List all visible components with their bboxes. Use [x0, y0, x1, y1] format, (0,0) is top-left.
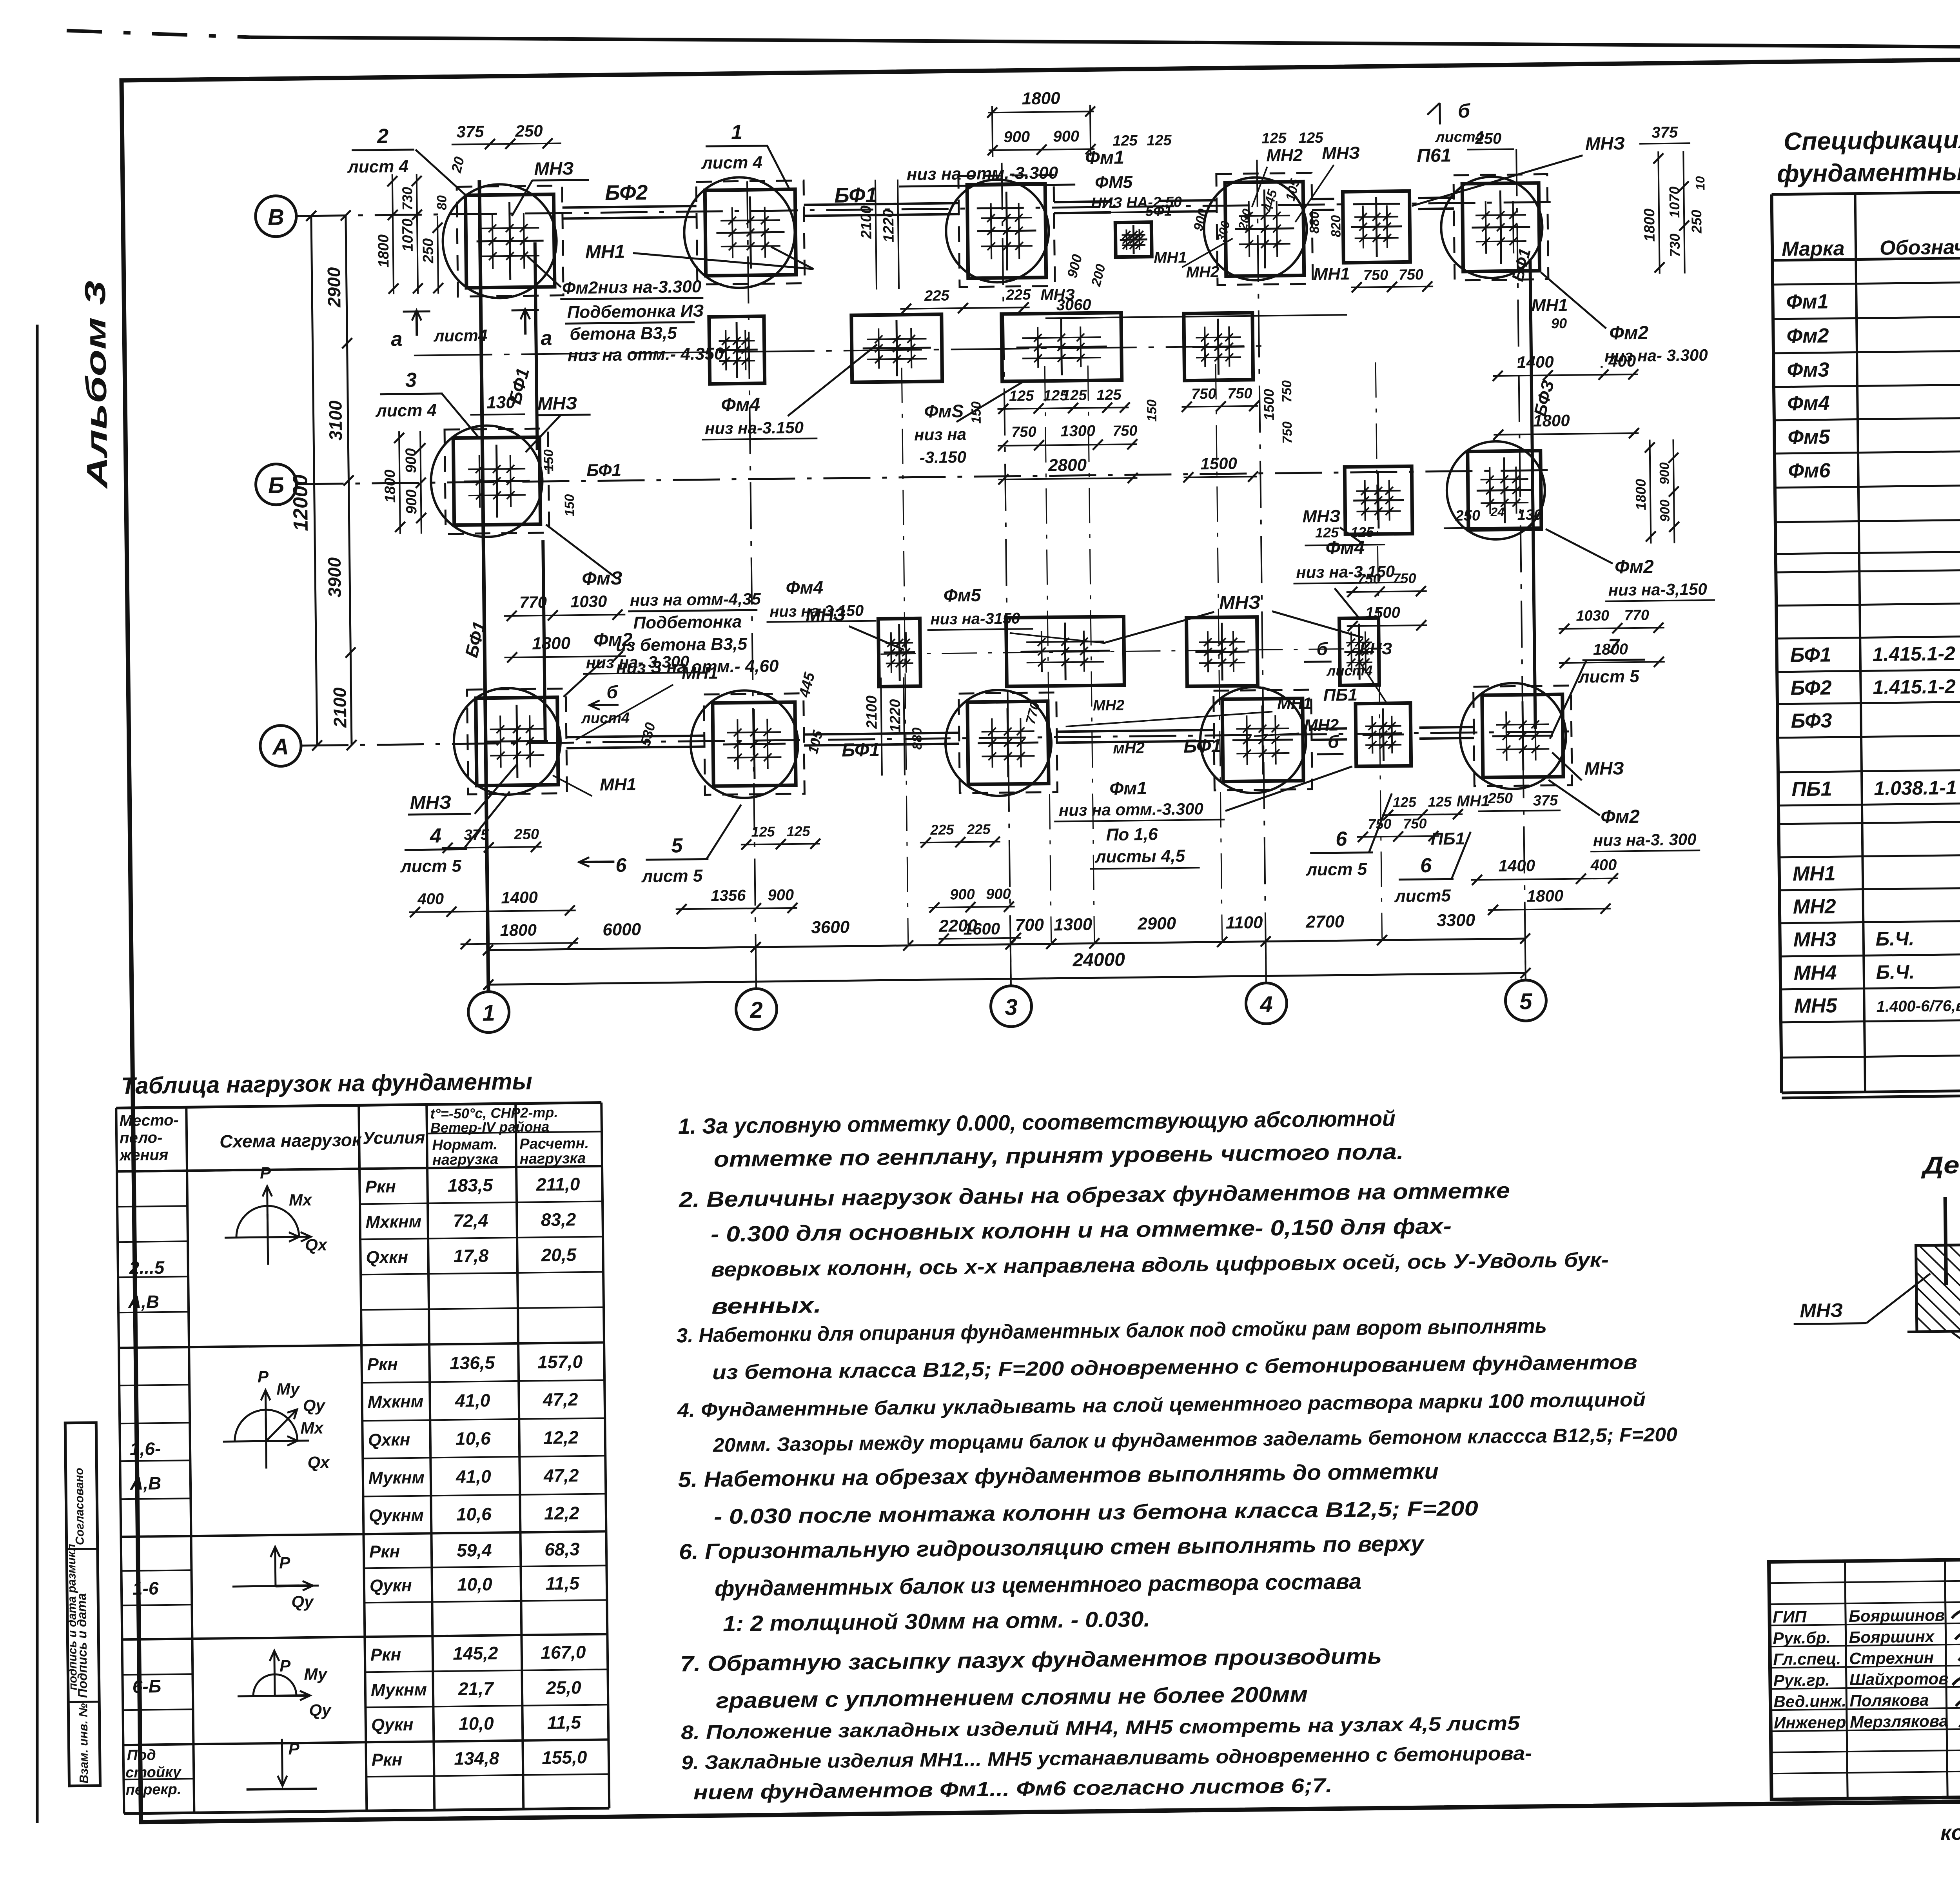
- svg-text:750: 750: [1363, 267, 1388, 284]
- svg-text:Фм3: Фм3: [1787, 358, 1829, 381]
- svg-text:Фм4: Фм4: [721, 394, 760, 416]
- svg-text:125: 125: [1298, 130, 1324, 147]
- svg-text:б: б: [606, 682, 619, 702]
- svg-text:лист 5: лист 5: [641, 866, 703, 886]
- svg-text:47,2: 47,2: [543, 1465, 579, 1486]
- svg-text:Qукн: Qукн: [371, 1715, 414, 1735]
- svg-text:1800: 1800: [1633, 479, 1649, 510]
- svg-text:1356: 1356: [711, 887, 746, 904]
- svg-text:БФ1: БФ1: [1790, 643, 1831, 666]
- svg-text:БФ1: БФ1: [1183, 736, 1222, 757]
- svg-text:лист4: лист4: [433, 326, 487, 345]
- svg-text:низ на- 3.300: низ на- 3.300: [1604, 346, 1708, 365]
- svg-text:2: 2: [750, 997, 763, 1023]
- svg-text:стойку: стойку: [125, 1764, 182, 1781]
- svg-text:183,5: 183,5: [448, 1175, 494, 1196]
- svg-text:Р: Р: [279, 1553, 291, 1572]
- svg-text:МН1: МН1: [682, 663, 718, 683]
- svg-text:Qукн: Qукн: [370, 1576, 412, 1596]
- svg-text:750: 750: [1112, 423, 1138, 439]
- svg-text:125: 125: [1112, 133, 1138, 149]
- foundation А-2: [704, 693, 805, 795]
- svg-text:125: 125: [1393, 794, 1417, 810]
- svg-text:12,2: 12,2: [544, 1503, 580, 1523]
- svg-text:МН4: МН4: [1793, 961, 1837, 984]
- svg-text:90: 90: [1551, 315, 1567, 331]
- svg-text:б: б: [1328, 731, 1340, 752]
- svg-text:1400: 1400: [501, 888, 538, 907]
- svg-text:Ркн: Ркн: [372, 1750, 403, 1770]
- svg-text:250: 250: [1688, 210, 1705, 234]
- axis circle 2: [736, 988, 777, 1029]
- svg-text:1.415.1-2 вып.1: 1.415.1-2 вып.1: [1872, 642, 1960, 665]
- svg-text:6: 6: [1336, 828, 1348, 850]
- foundation В-3 Фм1: [958, 175, 1055, 287]
- svg-text:-3.150: -3.150: [920, 448, 967, 467]
- svg-text:Согласовано: Согласовано: [73, 1468, 87, 1545]
- svg-text:Мхкнм: Мхкнм: [365, 1212, 421, 1232]
- svg-text:6: 6: [615, 854, 627, 876]
- svg-text:125: 125: [1096, 387, 1122, 404]
- svg-text:2900: 2900: [323, 267, 344, 308]
- svg-text:низ на отм.- 4.350: низ на отм.- 4.350: [568, 344, 724, 365]
- svg-text:Фм4: Фм4: [786, 577, 823, 598]
- svg-text:Мхкнм: Мхкнм: [367, 1392, 423, 1412]
- svg-text:1-6: 1-6: [132, 1578, 159, 1599]
- svg-text:Qхкн: Qхкн: [366, 1247, 408, 1267]
- svg-text:1.415.1-2 вып.1: 1.415.1-2 вып.1: [1873, 675, 1960, 698]
- svg-text:3: 3: [405, 369, 417, 392]
- svg-text:Qу: Qу: [309, 1701, 332, 1720]
- svg-text:750: 750: [1403, 815, 1427, 832]
- svg-text:1: 1: [731, 121, 743, 143]
- axis column 4 line: [1257, 160, 1266, 983]
- svg-text:1500: 1500: [1365, 604, 1400, 622]
- svg-text:Б.Ч.: Б.Ч.: [1876, 961, 1915, 983]
- svg-text:900: 900: [403, 448, 420, 473]
- svg-text:225: 225: [924, 287, 950, 304]
- svg-text:Ркн: Ркн: [370, 1645, 401, 1665]
- svg-text:130: 130: [1517, 507, 1542, 524]
- svg-text:МНЗ: МНЗ: [534, 158, 574, 179]
- svg-text:Р: Р: [288, 1739, 300, 1758]
- svg-text:1100: 1100: [1226, 913, 1263, 933]
- svg-text:68,3: 68,3: [544, 1539, 580, 1559]
- beam double lines row В: [563, 206, 697, 208]
- foundation Б МНЗ square: [1345, 466, 1412, 534]
- svg-text:1030: 1030: [1576, 608, 1609, 624]
- svg-text:Шайхротов: Шайхротов: [1849, 1669, 1949, 1689]
- svg-text:59,4: 59,4: [457, 1540, 492, 1561]
- svg-text:1800: 1800: [1526, 886, 1563, 905]
- svg-text:375: 375: [456, 122, 484, 141]
- svg-text:нагрузка: нагрузка: [432, 1151, 499, 1168]
- left margin stamp boxes: [65, 1423, 100, 1786]
- svg-text:лист 4: лист 4: [375, 401, 437, 421]
- svg-text:лист5: лист5: [1394, 886, 1451, 906]
- svg-text:лист 4: лист 4: [347, 157, 408, 177]
- foundation А-3 Фм1: [959, 692, 1058, 793]
- foundation Б-5 Фм2: [1468, 451, 1541, 530]
- svg-text:225: 225: [1005, 287, 1031, 303]
- svg-text:Фм2: Фм2: [1601, 806, 1640, 828]
- svg-text:1030: 1030: [570, 592, 607, 611]
- bottom dimension chain segments: [488, 938, 1525, 950]
- axis column 3 line: [1002, 163, 1011, 986]
- svg-text:900: 900: [768, 886, 794, 904]
- svg-text:Мукнм: Мукнм: [368, 1468, 425, 1488]
- svg-text:А,В: А,В: [128, 1291, 160, 1312]
- svg-text:Qу: Qу: [303, 1396, 326, 1415]
- svg-text:250: 250: [515, 122, 543, 140]
- svg-text:а: а: [391, 328, 403, 350]
- svg-text:225: 225: [966, 821, 991, 837]
- axis row А line: [301, 732, 1572, 746]
- axis circle 1: [468, 991, 509, 1033]
- axis row В line: [299, 202, 1554, 216]
- svg-text:2100: 2100: [858, 205, 875, 239]
- svg-text:МН1: МН1: [585, 241, 625, 263]
- svg-text:ПБ1: ПБ1: [1431, 829, 1465, 849]
- svg-text:125: 125: [786, 823, 810, 839]
- svg-text:листы 4,5: листы 4,5: [1094, 846, 1185, 867]
- svg-text:880: 880: [910, 727, 925, 750]
- svg-text:Ркн: Ркн: [369, 1542, 400, 1561]
- svg-text:1300: 1300: [1054, 915, 1093, 934]
- svg-text:пело-: пело-: [120, 1129, 163, 1147]
- load schema group 3: [232, 1586, 319, 1587]
- svg-text:1: 1: [482, 1000, 495, 1026]
- svg-text:750: 750: [1357, 570, 1381, 587]
- svg-text:Qхкн: Qхкн: [368, 1430, 410, 1450]
- svg-text:1.400-6/76,вып.1 лист90: 1.400-6/76,вып.1 лист90: [1876, 996, 1960, 1015]
- svg-text:В: В: [268, 204, 285, 230]
- svg-text:145,2: 145,2: [453, 1643, 498, 1664]
- svg-text:24: 24: [1490, 505, 1504, 519]
- svg-text:Qх: Qх: [307, 1453, 330, 1472]
- svg-text:ГИП: ГИП: [1773, 1607, 1807, 1626]
- svg-text:10,0: 10,0: [459, 1713, 494, 1734]
- svg-text:750: 750: [1399, 267, 1424, 283]
- svg-text:41,0: 41,0: [456, 1466, 492, 1487]
- svg-text:125: 125: [751, 823, 775, 840]
- svg-text:Фм5: Фм5: [1788, 425, 1831, 448]
- svg-text:225: 225: [930, 821, 954, 838]
- svg-text:лист 5: лист 5: [1305, 860, 1367, 880]
- svg-text:1800: 1800: [1641, 209, 1658, 242]
- svg-text:а: а: [541, 327, 552, 350]
- svg-text:из бетона В3,5: из бетона В3,5: [616, 634, 748, 655]
- left vertical dimension chain 2900/3100/3900/2100: [346, 216, 352, 745]
- svg-text:730: 730: [1667, 233, 1683, 257]
- svg-text:МН2: МН2: [1793, 895, 1836, 918]
- svg-text:2700: 2700: [1305, 912, 1345, 931]
- svg-text:Усилия: Усилия: [363, 1128, 425, 1148]
- svg-text:1: 2 толщиной 30мм на отм: 1: 2 толщиной 30мм на отм. - 0.030.: [723, 1607, 1151, 1636]
- svg-text:Марка: Марка: [1782, 237, 1845, 261]
- svg-text:Рук.бр.: Рук.бр.: [1773, 1628, 1831, 1648]
- svg-text:750: 750: [1392, 570, 1416, 586]
- svg-text:Ветер-IV района: Ветер-IV района: [430, 1118, 550, 1136]
- axis circle Б: [256, 464, 297, 505]
- svg-text:900: 900: [1004, 128, 1030, 146]
- svg-text:низ на-3. 300: низ на-3. 300: [1593, 830, 1697, 850]
- svg-text:Взам. инв. №: Взам. инв. №: [76, 1703, 91, 1783]
- svg-text:П61: П61: [1417, 145, 1452, 166]
- svg-text:Стрехнин: Стрехнин: [1849, 1648, 1934, 1668]
- svg-text:Гл.спец.: Гл.спец.: [1773, 1649, 1841, 1668]
- svg-text:10,0: 10,0: [457, 1574, 493, 1595]
- svg-text:БФ1: БФ1: [842, 740, 880, 761]
- svg-text:ФмS: ФмS: [924, 401, 964, 421]
- svg-text:12000: 12000: [289, 474, 312, 531]
- svg-text:750: 750: [1280, 421, 1295, 444]
- svg-text:Фм2: Фм2: [1786, 324, 1829, 347]
- svg-text:низ на-3,150: низ на-3,150: [769, 602, 864, 621]
- svg-text:МН1: МН1: [1793, 862, 1836, 885]
- svg-text:125: 125: [1009, 388, 1034, 405]
- svg-text:Б.Ч.: Б.Ч.: [1875, 928, 1914, 950]
- axis column 5 line: [1516, 149, 1526, 980]
- foundation В-1 Фм2: [457, 185, 563, 296]
- svg-text:125: 125: [1147, 132, 1172, 149]
- svg-text:МН1: МН1: [1457, 792, 1490, 810]
- svg-text:1.038.1-1 вып.1: 1.038.1-1 вып.1: [1874, 776, 1960, 799]
- svg-text:Таблица нагрузок на фундаменты: Таблица нагрузок на фундаменты: [121, 1068, 532, 1099]
- svg-text:820: 820: [1328, 215, 1344, 237]
- svg-text:900: 900: [1053, 128, 1079, 145]
- svg-text:МН1: МН1: [1277, 694, 1312, 713]
- svg-text:Мх: Мх: [300, 1418, 324, 1437]
- svg-text:МН5: МН5: [1794, 994, 1838, 1017]
- svg-text:6000: 6000: [603, 920, 641, 939]
- svg-text:1400: 1400: [1517, 352, 1554, 371]
- svg-text:375: 375: [1533, 792, 1559, 809]
- svg-text:900: 900: [950, 886, 975, 903]
- foundation В small Фм5: [1115, 222, 1152, 257]
- svg-text:МН2: МН2: [1186, 263, 1219, 281]
- svg-text:3300: 3300: [1437, 911, 1475, 930]
- svg-text:900: 900: [1657, 499, 1673, 522]
- svg-text:21,7: 21,7: [458, 1678, 495, 1699]
- svg-text:750: 750: [1368, 816, 1392, 832]
- svg-text:125: 125: [1350, 524, 1374, 540]
- svg-text:250: 250: [1455, 507, 1480, 524]
- svg-text:нагрузка: нагрузка: [520, 1150, 586, 1167]
- svg-text:6-Б: 6-Б: [132, 1676, 161, 1697]
- svg-text:Р: Р: [260, 1164, 272, 1182]
- svg-text:47,2: 47,2: [543, 1389, 579, 1410]
- svg-text:ПБ1: ПБ1: [1323, 685, 1357, 705]
- svg-text:900: 900: [403, 489, 420, 514]
- svg-text:1800: 1800: [532, 634, 571, 653]
- svg-text:МНЗ: МНЗ: [537, 393, 577, 414]
- svg-text:2100: 2100: [329, 687, 350, 728]
- svg-text:БФ2: БФ2: [605, 181, 648, 205]
- svg-text:Qукнм: Qукнм: [369, 1506, 424, 1526]
- svg-text:Фм1: Фм1: [1085, 147, 1124, 168]
- svg-text:МН2: МН2: [1266, 145, 1303, 165]
- svg-text:Мукнм: Мукнм: [371, 1680, 427, 1700]
- svg-text:Нормат.: Нормат.: [432, 1136, 497, 1153]
- svg-text:250: 250: [514, 826, 539, 843]
- svg-text:155,0: 155,0: [542, 1747, 587, 1768]
- foundation Б-1 Фм3: [445, 428, 549, 534]
- svg-text:ПБ1: ПБ1: [1791, 777, 1832, 801]
- svg-text:МН1: МН1: [1313, 264, 1350, 284]
- svg-text:Фм6: Фм6: [1788, 459, 1831, 482]
- svg-text:770: 770: [1624, 607, 1649, 624]
- section mark а-а: [416, 310, 418, 336]
- svg-text:211,0: 211,0: [535, 1174, 580, 1194]
- svg-text:Б: Б: [268, 472, 285, 498]
- title block left grid: [1845, 1561, 1847, 1799]
- specification table grid: [1772, 186, 1960, 194]
- svg-text:150: 150: [1144, 399, 1160, 422]
- svg-text:1800: 1800: [382, 470, 399, 503]
- svg-text:жения: жения: [119, 1146, 168, 1164]
- svg-text:Мерзлякова: Мерзлякова: [1850, 1712, 1948, 1731]
- svg-text:Му: Му: [276, 1380, 301, 1398]
- svg-text:125: 125: [1315, 524, 1339, 541]
- svg-text:41,0: 41,0: [455, 1390, 491, 1411]
- svg-text:400: 400: [417, 890, 444, 908]
- svg-text:2800: 2800: [1048, 456, 1087, 475]
- svg-text:Под: Под: [127, 1747, 156, 1764]
- svg-text:Альбом 3: Альбом 3: [79, 280, 114, 490]
- svg-text:Фм1: Фм1: [1786, 290, 1829, 313]
- svg-text:1800: 1800: [375, 234, 392, 268]
- svg-text:1500: 1500: [1200, 454, 1237, 473]
- svg-text:1600: 1600: [963, 919, 1000, 938]
- svg-text:Подбетонка: Подбетонка: [633, 612, 742, 632]
- svg-text:МН1: МН1: [600, 775, 636, 794]
- svg-text:Му: Му: [304, 1665, 328, 1683]
- svg-text:Фм4: Фм4: [1787, 392, 1830, 415]
- load table grid: [116, 1102, 601, 1108]
- svg-text:80: 80: [434, 195, 449, 210]
- svg-text:1800: 1800: [500, 920, 537, 939]
- scan artifact: top edge dash line of adjacent sheet: [67, 31, 251, 37]
- svg-text:МНЗ: МНЗ: [1800, 1299, 1843, 1322]
- load schema group 4: [238, 1695, 292, 1696]
- svg-text:3600: 3600: [811, 917, 850, 937]
- scan artifact: left binding edge line: [36, 325, 39, 1823]
- svg-text:10,6: 10,6: [456, 1504, 492, 1525]
- svg-text:750: 750: [1279, 380, 1295, 403]
- svg-text:1400: 1400: [1498, 856, 1535, 875]
- svg-text:375: 375: [464, 827, 489, 844]
- svg-text:700: 700: [1015, 915, 1044, 935]
- svg-text:Фм5: Фм5: [944, 585, 982, 606]
- svg-text:750: 750: [1227, 385, 1252, 402]
- axis column 1 line (БФ1 beam): [479, 180, 488, 992]
- axis row Б line: [297, 470, 1557, 484]
- svg-text:1220: 1220: [887, 699, 904, 732]
- svg-text:1800: 1800: [1593, 641, 1628, 658]
- left vertical dimension chain 12000: [311, 216, 317, 746]
- svg-text:10: 10: [1693, 176, 1707, 190]
- right В mini chains: [1658, 151, 1659, 274]
- svg-text:3060: 3060: [1056, 296, 1091, 314]
- svg-text:перекр.: перекр.: [125, 1781, 181, 1799]
- svg-text:125: 125: [1428, 793, 1452, 810]
- svg-text:Р: Р: [258, 1367, 269, 1386]
- svg-text:2: 2: [377, 125, 389, 147]
- svg-text:72,4: 72,4: [453, 1210, 488, 1231]
- svg-text:низ на: низ на: [914, 425, 966, 444]
- axis column 2 line: [747, 181, 756, 989]
- svg-text:лист 5: лист 5: [1578, 667, 1640, 687]
- svg-text:МНЗ: МНЗ: [1585, 133, 1625, 154]
- svg-text:4: 4: [430, 824, 442, 847]
- svg-text:2100: 2100: [864, 695, 880, 729]
- svg-text:лист 4: лист 4: [701, 153, 762, 173]
- svg-text:250: 250: [420, 238, 437, 264]
- svg-text:730: 730: [399, 187, 416, 211]
- svg-text:12,2: 12,2: [543, 1427, 579, 1448]
- svg-text:А,В: А,В: [130, 1473, 162, 1494]
- svg-text:5: 5: [671, 834, 683, 857]
- title block signatures squiggles: [1952, 1608, 1960, 1620]
- svg-text:Полякова: Полякова: [1849, 1691, 1929, 1710]
- foundation А-1 Фм2: [467, 688, 567, 794]
- svg-text:880: 880: [1307, 211, 1322, 234]
- svg-text:Место-: Место-: [119, 1112, 179, 1130]
- svg-text:МНЗ: МНЗ: [1584, 758, 1624, 779]
- svg-text:лист4: лист4: [1435, 129, 1484, 145]
- detail 1: foundation block with МН3 anchor: [1916, 1245, 1960, 1332]
- top chain 1800/900/900 above col3: [988, 111, 1094, 113]
- load schema group 1: [225, 1237, 311, 1238]
- title block outer frame: [1769, 1553, 1960, 1799]
- svg-text:Фм2: Фм2: [1615, 556, 1654, 577]
- svg-text:низ на отм-4,35: низ на отм-4,35: [630, 590, 761, 610]
- svg-text:250: 250: [1487, 790, 1513, 807]
- svg-text:11,5: 11,5: [547, 1712, 582, 1733]
- axis circle В: [255, 196, 296, 237]
- svg-text:3: 3: [1005, 995, 1018, 1020]
- svg-text:МНЗ: МНЗ: [410, 792, 451, 813]
- svg-text:150: 150: [562, 494, 577, 516]
- svg-text:17,8: 17,8: [453, 1245, 489, 1266]
- load schema group 2: [223, 1441, 309, 1441]
- svg-text:Фм2: Фм2: [1609, 323, 1649, 344]
- mid strip axis dash lines: [414, 346, 1261, 356]
- svg-text:б: б: [1458, 100, 1471, 122]
- foundation В-4 Фм1: [1216, 173, 1313, 285]
- svg-text:лист 5: лист 5: [400, 856, 462, 876]
- svg-text:Р: Р: [279, 1656, 291, 1675]
- mid strip foundations Фм4 Фм5 row 2: [878, 618, 920, 686]
- svg-text:МН3: МН3: [1793, 928, 1837, 951]
- axis circle 4: [1246, 983, 1287, 1024]
- svg-text:Qу: Qу: [291, 1592, 314, 1612]
- svg-text:136,5: 136,5: [450, 1352, 495, 1373]
- svg-text:25,0: 25,0: [546, 1677, 582, 1698]
- svg-text:157,0: 157,0: [537, 1351, 583, 1372]
- svg-text:Мх: Мх: [289, 1191, 313, 1209]
- svg-text:900: 900: [1657, 462, 1672, 485]
- svg-text:МН2: МН2: [1093, 697, 1125, 714]
- svg-text:низ на-3.150: низ на-3.150: [705, 418, 804, 438]
- svg-text:125: 125: [1062, 387, 1087, 404]
- svg-text:2900: 2900: [1137, 914, 1176, 933]
- svg-text:подпись и дата размикл: подпись и дата размикл: [65, 1544, 80, 1690]
- svg-text:2...5: 2...5: [129, 1257, 165, 1278]
- svg-text:низ на-3150: низ на-3150: [930, 610, 1020, 628]
- svg-text:3900: 3900: [324, 557, 345, 597]
